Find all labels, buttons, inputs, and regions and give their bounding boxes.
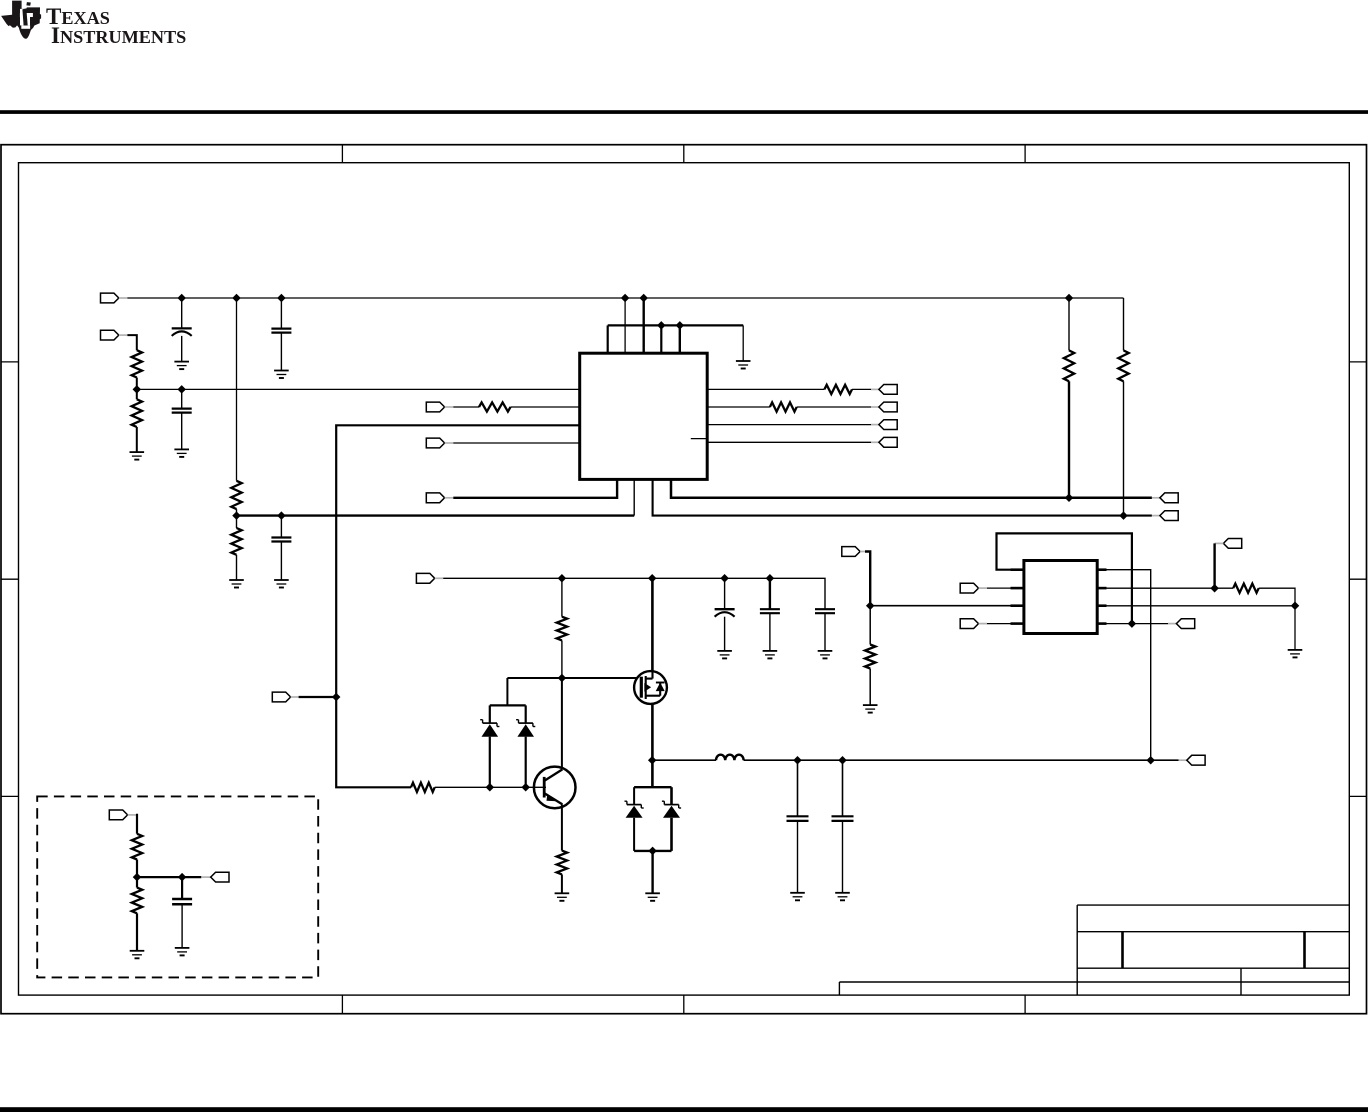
svg-text:INSTRUMENTS: INSTRUMENTS (51, 23, 186, 48)
